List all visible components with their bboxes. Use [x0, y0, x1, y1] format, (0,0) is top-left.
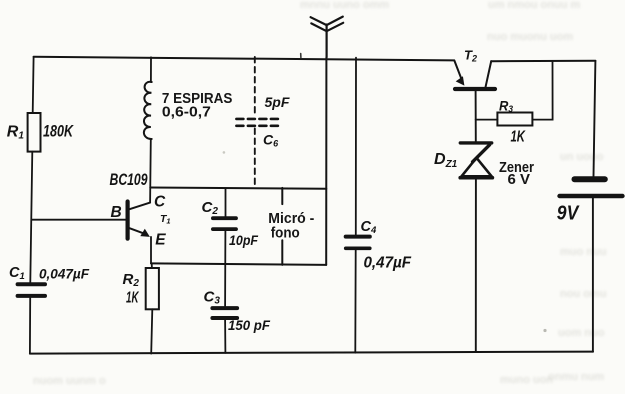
capacitor C4: [346, 58, 370, 353]
wire collector riser of T1: [149, 139, 152, 203]
wire bottom rail: [30, 352, 593, 354]
wire tick on top rail: [300, 54, 302, 58]
svg-text:fono: fono: [271, 225, 300, 242]
svg-text:mnnu uuno omm: mnnu uuno omm: [300, 0, 389, 11]
resistor R1: [28, 113, 41, 152]
svg-text:1K: 1K: [511, 129, 527, 146]
inductor L1 coil: [144, 82, 152, 139]
svg-text:5pF: 5pF: [265, 94, 290, 110]
svg-text:0,47µF: 0,47µF: [364, 254, 412, 271]
svg-text:10pF: 10pF: [229, 233, 259, 248]
svg-text:BC109: BC109: [110, 170, 148, 189]
resistor R3: [476, 61, 553, 126]
svg-text:nou omu: nou omu: [560, 288, 606, 300]
wire base of T1: [32, 219, 126, 221]
svg-text:C: C: [154, 193, 166, 210]
svg-text:E: E: [155, 232, 166, 249]
wire left rail middle: [30, 152, 32, 283]
wire left rail upper: [32, 57, 35, 113]
svg-text:muno uon: muno uon: [500, 374, 553, 386]
svg-text:un uouo: un uouo: [560, 151, 604, 163]
microphone box: [282, 57, 326, 265]
svg-text:nuo muonu uom: nuo muonu uom: [487, 31, 573, 43]
svg-text:1K: 1K: [126, 290, 139, 307]
svg-text:9V: 9V: [557, 202, 580, 224]
svg-text:nuom uunm o: nuom uunm o: [33, 375, 106, 387]
svg-text:6 V: 6 V: [508, 171, 531, 188]
trimmer capacitor C6 (dashed): [254, 57, 256, 188]
svg-text:0,047µF: 0,047µF: [39, 265, 89, 281]
svg-text:150 pF: 150 pF: [228, 318, 271, 333]
zener diode DZ1: [460, 143, 492, 352]
wire emitter drop of T1: [150, 237, 152, 264]
svg-text:B: B: [111, 204, 122, 221]
svg-text:muo nuu: muo nuu: [560, 246, 606, 258]
antenna: [311, 17, 344, 58]
wire T2 collector rail: [491, 60, 595, 62]
wire collector rail / micro box top: [150, 188, 326, 189]
resistor R2: [146, 263, 159, 353]
wire top rail: [34, 57, 454, 61]
capacitor C3: [212, 308, 237, 353]
battery BT1 9V: [560, 179, 623, 196]
wire coil top: [150, 57, 152, 82]
svg-text:um nmou onuu m: um nmou onuu m: [488, 0, 580, 11]
wire mid rail / micro box bottom: [151, 263, 326, 265]
capacitor C1: [18, 284, 45, 296]
capacitor C2: [213, 189, 236, 306]
transistor T1: [128, 202, 151, 239]
svg-text:uom nuo: uom nuo: [558, 327, 605, 339]
wire right rail lower: [592, 198, 594, 352]
svg-text:onmu num: onmu num: [548, 371, 604, 383]
wire T2 base drop: [475, 91, 477, 141]
transistor T2: [454, 60, 495, 89]
svg-text:0,6-0,7: 0,6-0,7: [162, 104, 211, 121]
wire left rail lower: [29, 298, 31, 354]
svg-text:180K: 180K: [43, 122, 74, 141]
wire right rail upper: [594, 61, 596, 176]
